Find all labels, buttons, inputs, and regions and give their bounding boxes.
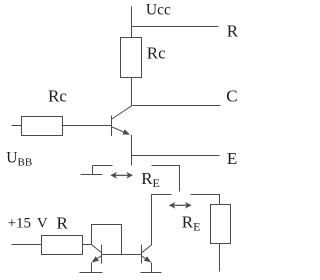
- double arrow 1 shaft: [115, 175, 129, 176]
- ground bar Q2: [141, 272, 162, 274]
- wire mirror loop: [92, 225, 122, 255]
- bracket 2 left + wire to Q2 collector: [152, 195, 172, 246]
- double arrow 1 left head: [110, 172, 117, 179]
- arrowhead T1 emitter: [123, 129, 131, 134]
- transistor Q2 collector lead: [142, 245, 152, 253]
- wire base lead T1: [63, 125, 112, 127]
- double arrow 2 left head: [169, 202, 176, 209]
- wire Q1 emitter down: [91, 263, 93, 273]
- resistor Rc left: [22, 117, 63, 136]
- wire R line: [132, 26, 219, 28]
- transistor Q1 collector lead: [92, 245, 102, 253]
- transistor Q2 base bar: [141, 245, 143, 264]
- svg-text:Ucc: Ucc: [146, 2, 171, 19]
- wire stub left of Rc: [12, 125, 22, 127]
- wire C line: [132, 105, 221, 107]
- transistor T1 base bar: [111, 116, 113, 137]
- wire Ucc vertical top: [131, 7, 133, 38]
- wire Q2 emitter down: [151, 262, 153, 272]
- wire below RE: [219, 244, 221, 272]
- svg-text:Rc: Rc: [48, 86, 67, 105]
- double arrow 2 right head: [185, 202, 192, 209]
- switch contact step 1 upper: [93, 165, 113, 167]
- svg-text:Rc: Rc: [147, 43, 166, 62]
- resistor R bottom: [42, 236, 83, 255]
- svg-text:C: C: [226, 86, 237, 105]
- switch contact step 1 vertical: [92, 166, 94, 175]
- transistor Q1 emitter lead: [93, 256, 101, 262]
- svg-text:E: E: [227, 149, 237, 168]
- ground bar Q1: [80, 272, 103, 274]
- svg-text:R: R: [57, 214, 69, 233]
- wire E line: [132, 155, 220, 157]
- wire emitter vertical: [131, 135, 133, 166]
- transistor Q1 base bar: [101, 245, 103, 264]
- double arrow 1 right head: [126, 172, 133, 179]
- svg-text:+15: +15: [8, 216, 31, 232]
- resistor RE right: [211, 205, 231, 244]
- transistor Q2 emitter lead: [142, 256, 150, 261]
- switch contact step 1 lower: [81, 174, 103, 176]
- arrowhead Q2 emitter: [144, 256, 151, 262]
- wire base bus Q1-Q2: [102, 254, 142, 256]
- transistor T1 emitter lead: [112, 127, 129, 134]
- wire +15V lead: [12, 244, 42, 246]
- arrowhead Q1 emitter: [92, 256, 99, 262]
- double arrow 2 shaft: [173, 205, 187, 206]
- resistor Rc top: [121, 38, 142, 78]
- bracket 2 right: [191, 195, 220, 205]
- transistor T1 collector lead: [112, 106, 132, 119]
- bracket 1 right: [152, 166, 180, 192]
- wire collector vertical: [131, 78, 133, 106]
- wire R to Q1 collector node: [83, 244, 92, 246]
- svg-text:V: V: [37, 216, 48, 232]
- svg-text:R: R: [227, 22, 239, 41]
